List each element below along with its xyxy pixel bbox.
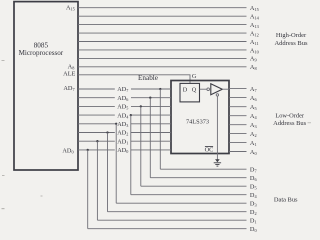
pin label OC (active low) — [205, 146, 214, 153]
high-order address bus caption — [274, 32, 308, 47]
wire AD4 from 8085 — [78, 114, 115, 116]
D latch cell — [180, 83, 200, 102]
wire A3 low-order address line — [229, 124, 247, 126]
wire A10 high-order address line — [78, 49, 247, 51]
svg-text:Microprocessor: Microprocessor — [19, 49, 64, 57]
wire buffer output — [222, 88, 229, 90]
junction AD5/D5 — [140, 105, 142, 107]
bubble output-control on buffer — [216, 94, 218, 96]
wire A13 high-order address line — [78, 24, 247, 26]
wire D2 data bus line — [108, 211, 247, 213]
svg-text:Low-Order: Low-Order — [275, 112, 305, 119]
wire AD2 tap down to data bus — [107, 133, 109, 212]
74LS373 latch box U2 — [171, 81, 229, 154]
tri-state output buffer — [211, 84, 223, 95]
svg-text:G: G — [192, 73, 197, 80]
svg-text:Address Bus: Address Bus — [274, 40, 308, 47]
svg-text:Data Bus: Data Bus — [274, 196, 298, 203]
wire AD6 from 8085 — [78, 97, 115, 99]
wire AD0 from 8085 — [78, 149, 115, 151]
wire AD3 to latch input — [131, 123, 171, 125]
wire AD0 tap down to data bus — [87, 150, 89, 229]
wire A15 high-order address line — [78, 7, 247, 9]
wire AD6 tap down to data bus — [149, 98, 151, 178]
wire D6 data bus line — [150, 177, 246, 179]
wire A6 low-order address line — [229, 97, 247, 99]
svg-text:Q: Q — [192, 87, 197, 94]
wire A2 low-order address line — [229, 133, 247, 135]
wire A4 low-order address line — [229, 115, 247, 117]
wire AD4 to latch input — [131, 114, 171, 116]
junction AD3/D3 — [115, 123, 117, 125]
junction AD7/D7 — [159, 88, 161, 90]
wire AD0 to latch input — [131, 149, 171, 151]
wire D4 data bus line — [131, 194, 247, 196]
wire AD3 from 8085 — [78, 123, 117, 125]
wire A5 low-order address line — [229, 106, 247, 108]
wire AD7 tap down to data bus — [159, 89, 161, 169]
wire Q output to buffer — [200, 88, 208, 90]
wire AD7 to latch input — [131, 88, 171, 90]
wire D0 data bus line — [88, 228, 247, 230]
wire A11 high-order address line — [78, 41, 247, 43]
junction AD4/D4 — [130, 114, 132, 116]
svg-text:D: D — [183, 87, 188, 94]
wire AD7 from 8085 — [78, 88, 115, 90]
wire AD5 tap down to data bus — [140, 106, 142, 186]
ground symbol — [214, 159, 221, 166]
svg-text:Enable: Enable — [138, 74, 158, 82]
wire A12 high-order address line — [78, 32, 247, 34]
junction AD6/D6 — [149, 97, 151, 99]
junction AD2/D2 — [106, 131, 108, 133]
8085 microprocessor box — [14, 2, 78, 170]
junction AD1/D1 — [96, 140, 98, 142]
wire A1 low-order address line — [229, 142, 247, 144]
wire AD6 to latch input — [131, 97, 171, 99]
svg-text:ALE: ALE — [63, 71, 75, 78]
wire D5 data bus line — [141, 185, 247, 187]
wire A7 low-order address line — [229, 88, 247, 90]
wire A9 high-order address line — [78, 57, 247, 59]
wire AD1 to latch input — [131, 140, 171, 142]
svg-text:Address Bus: Address Bus — [273, 120, 307, 127]
8085 microprocessor title — [19, 41, 64, 56]
wire AD5 to latch input — [131, 105, 171, 107]
svg-text:High-Order: High-Order — [276, 32, 307, 39]
wire AD1 tap down to data bus — [96, 141, 98, 220]
junction AD0/D0 — [87, 149, 89, 151]
wire A0 low-order address line — [229, 151, 247, 153]
wire A14 high-order address line — [78, 15, 247, 17]
wire A8 high-order address line — [78, 66, 247, 68]
wire AD2 to latch input — [131, 132, 171, 134]
wire ALE enable line — [78, 75, 190, 84]
bubble on buffer input — [207, 88, 210, 91]
low-order address bus caption — [273, 112, 307, 127]
wire D3 data bus line — [116, 202, 246, 204]
wire D7 data bus line — [160, 168, 246, 170]
svg-text:OC: OC — [205, 146, 214, 153]
wire AD2 from 8085 — [78, 132, 115, 134]
wire D1 data bus line — [97, 219, 246, 221]
wire AD3 tap down to data bus — [115, 124, 117, 203]
svg-text:74LS373: 74LS373 — [186, 119, 209, 126]
wire OC control line — [216, 96, 218, 160]
wire AD1 from 8085 — [78, 140, 115, 142]
wire AD4 tap down to data bus — [130, 115, 132, 195]
wire AD5 from 8085 — [78, 105, 115, 107]
